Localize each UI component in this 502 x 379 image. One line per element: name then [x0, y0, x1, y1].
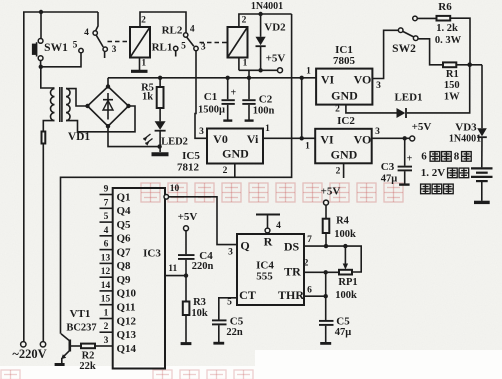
svg-text:R: R — [264, 235, 273, 249]
svg-text:5: 5 — [227, 298, 232, 308]
svg-text:Q8: Q8 — [117, 260, 132, 272]
svg-text:6: 6 — [104, 240, 109, 250]
svg-text:LED1: LED1 — [394, 92, 422, 104]
svg-text:R1: R1 — [446, 69, 459, 80]
svg-text:C5: C5 — [230, 316, 244, 328]
capacitor C5 22n — [212, 319, 227, 321]
capacitor C3 — [404, 138, 406, 166]
wire: TR pin2 line — [304, 271, 339, 273]
svg-text:IC3: IC3 — [143, 248, 161, 260]
ground under LED2 — [152, 152, 169, 156]
wire: secondary bottom to bridge right — [66, 106, 135, 132]
svg-text:2: 2 — [335, 105, 340, 115]
wire: SW1 bottom to transformer — [40, 61, 42, 67]
svg-text:Vi: Vi — [247, 132, 259, 146]
svg-text:Q12: Q12 — [117, 315, 137, 327]
svg-text:10k: 10k — [191, 308, 208, 319]
svg-text:Q6: Q6 — [117, 233, 132, 245]
wire: fuse down to mains terminal — [42, 144, 44, 342]
dashed actuation link RL2 — [200, 42, 228, 44]
mains terminals ~220V — [21, 342, 26, 347]
svg-text:1k: 1k — [142, 92, 153, 103]
node: regulator feed junction — [300, 76, 304, 80]
wire: IC5 pin1 to IC2 input — [263, 137, 316, 139]
svg-text:Q1: Q1 — [117, 191, 131, 203]
svg-text:+: + — [407, 154, 413, 165]
svg-text:VD2: VD2 — [264, 22, 286, 34]
svg-text:100k: 100k — [335, 290, 357, 301]
svg-text:4: 4 — [190, 25, 195, 35]
svg-text:3: 3 — [201, 43, 206, 53]
wire: contact 5 to SW1 — [41, 53, 81, 67]
svg-text:2: 2 — [141, 16, 146, 26]
node: VD2 bottom junction — [258, 68, 262, 72]
LED LED2 — [155, 121, 166, 130]
svg-text:10: 10 — [170, 184, 180, 194]
svg-text:VT1: VT1 — [70, 308, 91, 320]
contact RL2 moving blade — [187, 37, 194, 46]
svg-text:~220V: ~220V — [12, 347, 46, 361]
svg-text:2: 2 — [242, 16, 247, 26]
svg-text:4: 4 — [276, 221, 281, 231]
svg-text:+5V: +5V — [266, 53, 286, 65]
svg-text:Q11: Q11 — [117, 302, 136, 314]
svg-text:3: 3 — [228, 248, 233, 258]
ground VT1 emitter — [55, 363, 65, 366]
battery GB — [471, 167, 493, 169]
svg-text:C5: C5 — [336, 316, 350, 328]
contact RL1 terminal 4 — [93, 31, 97, 35]
wire: DS pin7 line — [304, 246, 361, 272]
svg-text:555: 555 — [256, 271, 273, 283]
svg-text:15: 15 — [101, 295, 111, 305]
svg-text:LED2: LED2 — [161, 137, 188, 148]
wire: RL1 pin2 to RL2 contact 4 — [140, 12, 186, 33]
wire: IC5 pin2 to common rail — [234, 164, 236, 178]
svg-text:C2: C2 — [259, 94, 273, 106]
wire: +5V tap line — [239, 69, 278, 71]
svg-text:Q13: Q13 — [117, 329, 137, 341]
diode LED1 — [397, 108, 406, 118]
svg-text:3: 3 — [199, 127, 204, 137]
svg-text:0. 3W: 0. 3W — [435, 35, 462, 46]
svg-text:1: 1 — [243, 59, 248, 69]
svg-text:1500μ: 1500μ — [198, 105, 225, 116]
svg-text:GND: GND — [222, 147, 249, 161]
svg-text:2: 2 — [336, 167, 341, 177]
svg-text:9: 9 — [104, 185, 109, 195]
svg-text:1: 1 — [306, 67, 311, 77]
resistor R5 — [159, 78, 161, 87]
wire: bridge bottom to common — [108, 126, 160, 146]
svg-text:14: 14 — [101, 281, 111, 291]
wire: contact 3 down to IC5 output — [195, 51, 207, 139]
node: LED2 common junction — [157, 144, 161, 148]
svg-text:+5V: +5V — [321, 186, 341, 198]
IC3 pin stubs and numbers — [100, 195, 113, 347]
wire: drop to bus above C2 — [248, 70, 250, 78]
svg-text:Q10: Q10 — [117, 288, 137, 300]
svg-text:100n: 100n — [253, 106, 275, 117]
contact RL2 terminal 3 — [194, 46, 198, 50]
svg-text:RL1: RL1 — [152, 42, 173, 54]
svg-text:V0: V0 — [213, 132, 228, 146]
wire: SW2 lower contact to R1 — [418, 39, 443, 65]
svg-text:R3: R3 — [193, 297, 206, 308]
resistor R4 — [325, 205, 327, 219]
wire: secondary top to bridge left — [66, 89, 88, 106]
svg-text:1W: 1W — [444, 91, 460, 102]
svg-text:C1: C1 — [204, 91, 217, 103]
ground RL1 — [131, 70, 148, 73]
wire: IC3 pin10 to IC4 pin3 — [169, 197, 237, 245]
node: IC3 pin10 terminal — [164, 195, 169, 200]
wire: IC2 pin2 stub — [343, 163, 345, 178]
wire: RL1 pin1 to ground — [139, 58, 141, 71]
svg-text:13: 13 — [101, 253, 111, 263]
svg-text:Q4: Q4 — [117, 205, 132, 217]
svg-text:Q9: Q9 — [117, 274, 132, 286]
svg-text:Q5: Q5 — [117, 219, 132, 231]
svg-text:1N4001: 1N4001 — [449, 134, 481, 145]
svg-text:GND: GND — [331, 148, 358, 162]
svg-text:Q7: Q7 — [117, 246, 132, 258]
svg-text:TR: TR — [284, 265, 301, 279]
svg-text:BC237: BC237 — [66, 323, 96, 334]
watermark row 2 (clipped at bottom) — [1, 370, 253, 379]
svg-text:+5V: +5V — [178, 211, 198, 223]
svg-text:Q: Q — [240, 239, 249, 253]
wire: IC3 pin11 — [165, 275, 186, 277]
potentiometer RP1 — [344, 246, 346, 264]
bridge rectifier VD1 — [88, 87, 129, 127]
svg-text:3: 3 — [375, 127, 380, 137]
relay coil RL1 — [130, 27, 150, 58]
svg-text:11: 11 — [168, 264, 177, 274]
wire: top-left mains rail — [24, 12, 98, 342]
contact RL1 terminal 5 — [79, 48, 83, 52]
svg-text:GND: GND — [331, 89, 358, 103]
svg-text:1: 1 — [265, 124, 270, 134]
svg-text:3: 3 — [104, 336, 109, 346]
svg-text:22k: 22k — [79, 361, 96, 372]
node: SW1 bottom junction — [39, 65, 43, 69]
svg-text:VI: VI — [320, 133, 334, 147]
svg-text:R4: R4 — [336, 215, 350, 226]
svg-text:4: 4 — [104, 226, 109, 236]
wire: bus to regulators vertical — [301, 78, 303, 139]
svg-text:3: 3 — [376, 81, 381, 91]
wire: RL2 pin2 to top rail — [239, 14, 292, 27]
svg-text:VO: VO — [354, 133, 372, 147]
node: RP1 wiper junction — [343, 244, 347, 248]
wire: THR pin6 line — [304, 295, 326, 297]
timer IC4 555 — [237, 234, 304, 305]
svg-text:R6: R6 — [438, 1, 452, 13]
svg-text:VO: VO — [354, 72, 372, 86]
capacitor C2 — [248, 78, 250, 100]
wire: common rail — [61, 14, 292, 334]
svg-text:1. 2V: 1. 2V — [421, 167, 446, 179]
IC4 pin4 reset terminal — [265, 228, 270, 233]
svg-text:CT: CT — [239, 288, 256, 302]
svg-text:VI: VI — [321, 72, 335, 86]
capacitor C5 47u — [325, 296, 327, 320]
transformer core — [59, 87, 61, 122]
IC3 Q output labels — [117, 191, 137, 354]
svg-text:2: 2 — [223, 166, 228, 176]
svg-text:RP1: RP1 — [338, 277, 357, 288]
resistor R2 — [70, 345, 81, 347]
wire: main 12V bus — [108, 77, 316, 79]
svg-text:7812: 7812 — [177, 162, 200, 174]
battery label text — [421, 151, 472, 194]
svg-text:Q14: Q14 — [117, 343, 137, 355]
wire: LED1 to R1 node — [407, 65, 470, 113]
diode VD3 1N4001 — [481, 65, 483, 128]
svg-text:VD1: VD1 — [68, 131, 91, 143]
svg-text:2: 2 — [104, 322, 109, 332]
svg-text:6: 6 — [421, 151, 427, 163]
dashed actuation link RL1 — [108, 41, 130, 43]
wire: SW1 drop — [40, 12, 42, 39]
svg-text:IC5: IC5 — [182, 150, 200, 162]
wire: rail down to contact 4 — [96, 12, 98, 31]
transformer T primary winding — [53, 87, 55, 89]
node: THR junction — [324, 294, 328, 298]
resistor R3 — [183, 302, 190, 316]
node: +5V output junction — [403, 136, 407, 140]
wire: bridge top to bus — [107, 78, 109, 87]
node: R1 output junction — [467, 62, 472, 67]
transformer T secondary winding — [66, 89, 70, 121]
fuse FU — [42, 132, 46, 144]
watermark row 1 — [141, 183, 403, 202]
svg-text:+: + — [230, 88, 236, 99]
wire: IC1 pin2 to LED1 — [346, 105, 397, 113]
svg-text:3: 3 — [112, 45, 117, 55]
contact RL1 terminal 3 — [103, 47, 107, 51]
node: R4/DS junction — [324, 244, 328, 248]
wire: IC2 output — [372, 137, 410, 139]
node: C1 junction — [226, 76, 230, 80]
svg-text:RL2: RL2 — [162, 25, 183, 37]
svg-text:THR: THR — [278, 288, 304, 302]
svg-text:12: 12 — [101, 267, 111, 277]
relay coil RL2 — [228, 27, 248, 58]
svg-text:22n: 22n — [226, 327, 243, 338]
wire: CT pin5 to C5 — [219, 298, 237, 320]
svg-text:100k: 100k — [334, 229, 356, 240]
svg-text:47μ: 47μ — [335, 327, 352, 338]
svg-text:47μ: 47μ — [381, 174, 398, 185]
svg-text:+5V: +5V — [412, 121, 432, 133]
node: R5 junction — [158, 76, 162, 80]
contact RL1 moving blade — [96, 35, 103, 47]
switch SW2 — [398, 28, 403, 33]
svg-text:5: 5 — [104, 212, 109, 222]
svg-text:C3: C3 — [381, 161, 395, 173]
svg-text:SW2: SW2 — [392, 43, 416, 55]
wire: TR to THR — [325, 272, 327, 296]
svg-text:VD3: VD3 — [455, 121, 477, 133]
wire: IC1 output to SW2 — [372, 30, 398, 78]
IC3 counter box — [113, 188, 165, 369]
node: pin1 wire junction — [300, 136, 304, 140]
svg-text:7: 7 — [307, 235, 312, 245]
svg-text:1. 2k: 1. 2k — [436, 23, 458, 34]
svg-text:1: 1 — [141, 59, 146, 69]
contact RL2 terminal 4 — [184, 33, 188, 37]
LED2 emission arrows — [144, 134, 153, 144]
svg-text:DS: DS — [284, 240, 300, 254]
svg-text:7805: 7805 — [333, 55, 356, 67]
node: pin11 junction — [184, 273, 188, 277]
svg-text:6: 6 — [307, 286, 312, 296]
svg-text:150: 150 — [444, 80, 460, 91]
switch SW1 pushbutton — [38, 39, 43, 44]
node: C2 junction — [247, 76, 251, 80]
svg-text:5: 5 — [181, 42, 186, 52]
svg-text:5: 5 — [73, 40, 78, 50]
wire: RL2 pin1 to +5V line — [238, 58, 240, 71]
regulator IC5 7812 — [207, 129, 263, 164]
resistor R1 — [443, 62, 456, 67]
svg-text:220n: 220n — [192, 261, 214, 272]
svg-text:8: 8 — [454, 151, 460, 163]
svg-text:R2: R2 — [82, 350, 95, 361]
svg-text:4: 4 — [84, 28, 89, 38]
svg-text:SW1: SW1 — [44, 42, 68, 54]
node: SW1 top junction — [39, 10, 43, 14]
svg-text:C4: C4 — [199, 250, 213, 262]
svg-text:1: 1 — [104, 309, 109, 319]
capacitor C1 — [227, 78, 229, 100]
capacitor C4 — [185, 231, 187, 255]
node: TR junction — [324, 270, 328, 274]
svg-text:2: 2 — [304, 259, 309, 269]
svg-text:IC2: IC2 — [337, 115, 355, 127]
svg-text:1: 1 — [305, 141, 310, 151]
node: +5V terminal — [278, 68, 283, 73]
svg-text:7: 7 — [104, 198, 109, 208]
svg-text:1N4001: 1N4001 — [251, 1, 283, 12]
